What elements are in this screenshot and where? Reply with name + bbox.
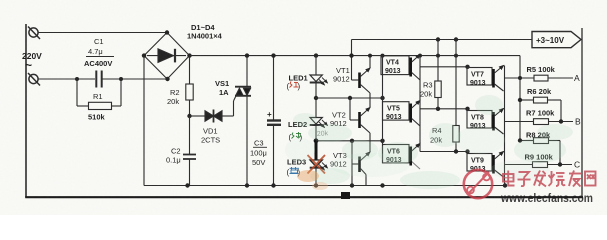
LED string vertical wire	[315, 56, 317, 186]
transistor VT1 (9012)	[352, 56, 371, 98]
wire row B / resistor R7	[505, 119, 574, 125]
node R3 bottom	[436, 107, 440, 111]
wire row1 to VT7 base	[420, 66, 468, 68]
flag +3~10V	[532, 32, 581, 48]
烧	[549, 171, 566, 186]
resistor R1 with parallel loop	[77, 79, 121, 110]
thyristor VS1	[234, 56, 252, 186]
transistor VT2 (9012)	[350, 98, 370, 141]
orange smudge near LED3	[297, 170, 319, 182]
resistor R2	[186, 56, 193, 116]
wire VT7-9 emitter column	[504, 66, 506, 186]
diode VD1 (bidirectional trigger)	[190, 101, 234, 123]
网	[585, 172, 596, 186]
nodes on DC rail	[245, 53, 249, 57]
友	[569, 171, 581, 187]
node R4 bottom	[454, 149, 458, 153]
wire DC mid rail	[190, 55, 521, 57]
capacitor C2	[183, 116, 196, 186]
PLACEHOLDER-TRANSISTORS	[467, 32, 581, 186]
glyph lv (green)	[292, 132, 302, 139]
PLACEHOLDER-LEDS	[330, 40, 470, 186]
node C1 left	[75, 77, 79, 81]
glyph lan (blue)	[290, 167, 300, 174]
node row1-base column	[348, 96, 352, 100]
node bridge bottom	[165, 77, 169, 81]
transistor VT4 (9013, boxed)	[381, 55, 420, 81]
LED2 (green)	[310, 118, 328, 128]
watermark logo (elecfans)	[464, 170, 492, 198]
node feed x520 R8	[518, 138, 522, 142]
node feed x520 row A	[518, 76, 522, 80]
LED3 (blue)	[310, 160, 328, 170]
wire riser VT1 base column	[351, 40, 353, 81]
发	[534, 171, 546, 187]
wire row A	[505, 77, 574, 79]
resistor R5	[534, 75, 548, 81]
wire top rail to flag	[352, 39, 533, 41]
resistor R4	[453, 40, 459, 152]
wire lower AC	[39, 78, 168, 80]
wire top AC	[39, 32, 168, 34]
node row1 end	[380, 96, 384, 100]
电	[503, 171, 515, 186]
watermark green smudges	[293, 95, 573, 189]
node bridge left	[142, 53, 146, 57]
wire VT4-6 right column	[419, 56, 421, 152]
transistor VT8 (9013, boxed)	[467, 109, 504, 135]
watermark text 电子发烧友网 (vector strokes)	[503, 171, 596, 187]
resistor R8	[520, 138, 560, 165]
node row1 feed	[465, 65, 469, 69]
wire right column feed	[519, 56, 521, 141]
label C1 4.7u AC400V	[84, 37, 112, 68]
node B junction	[559, 119, 563, 123]
transistor VT9 (boxed)	[467, 152, 504, 178]
node bridge top	[165, 30, 169, 34]
wire bottom rail	[144, 185, 505, 187]
resistor R6	[520, 97, 561, 121]
wire VT4-6 left column	[382, 56, 384, 163]
black mark on bottom frame	[341, 192, 350, 199]
transistor VT6 (9013, boxed)	[383, 144, 421, 170]
label 220V	[22, 51, 42, 72]
wire LED1 row	[316, 97, 383, 99]
wire row C / resistor R9	[505, 162, 573, 168]
node bridge right	[187, 53, 191, 57]
transistor VT5 (9013, boxed)	[383, 101, 421, 127]
node row2-base column	[350, 139, 354, 143]
watermark url text	[500, 191, 593, 205]
capacitor C3 electrolytic	[267, 56, 281, 186]
node C1 right	[119, 77, 123, 81]
terminal T2 (AC input lower)	[28, 73, 40, 86]
terminal T1 (AC input upper)	[28, 27, 40, 40]
wire LED2 row	[316, 140, 383, 142]
wire row3 to VT9 base	[420, 151, 468, 153]
border frame	[25, 24, 583, 198]
nodes on bottom rail	[185, 183, 189, 187]
node LED1 cathode	[314, 96, 318, 100]
LED1 (red)	[310, 75, 328, 85]
transistor VT7 (9013, boxed)	[467, 66, 504, 92]
resistor R3	[435, 40, 441, 109]
node row2 end	[380, 139, 384, 143]
transistor VT3 (9012)	[352, 141, 370, 186]
bridge rectifier D1~D4	[144, 33, 190, 80]
glyph hong (red)	[290, 82, 299, 88]
wire row2 to VT8 base	[420, 108, 468, 110]
node C junction	[558, 162, 562, 166]
子	[518, 172, 531, 186]
node R2/VD1/C2	[187, 114, 191, 118]
node row2 feed	[465, 107, 469, 111]
capacitor C1	[96, 71, 101, 88]
nodes on top rail	[436, 37, 440, 41]
wire bridge-left down to bottom rail	[143, 56, 145, 186]
node feed x520 R6	[518, 98, 522, 102]
node row3 feed	[465, 149, 469, 153]
annotation X over LED3	[308, 155, 326, 174]
node LED2 cathode	[314, 138, 319, 143]
